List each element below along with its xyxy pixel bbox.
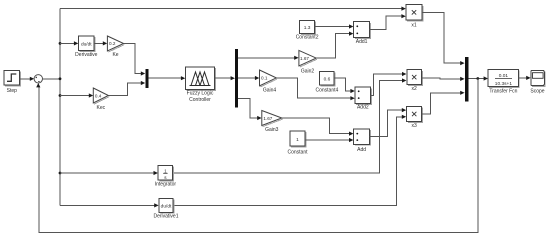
block Transfer Fcn	[488, 70, 519, 95]
constant Constant (1)	[287, 131, 308, 155]
wire Integrator to x2 input 2	[173, 78, 407, 173]
svg-text:0.4: 0.4	[95, 93, 102, 98]
wire Transfer Fcn to Scope	[518, 76, 530, 80]
wire feedback from junction to Sum	[36, 79, 478, 233]
svg-text:Derivative1: Derivative1	[153, 214, 178, 220]
wire Gain2 to Add1 input 2	[316, 32, 353, 59]
wire Add to x3 input 1	[370, 108, 407, 137]
sink block Scope	[530, 70, 545, 94]
svg-text:0.2: 0.2	[109, 41, 116, 46]
svg-text:Transfer Fcn: Transfer Fcn	[489, 89, 517, 95]
svg-text:Fuzzy Logic: Fuzzy Logic	[187, 91, 214, 97]
wire Mux to Fuzzy Logic Controller	[149, 76, 186, 80]
svg-text:Scope: Scope	[530, 89, 544, 95]
block U1 Fuzzy Logic Controller	[186, 67, 216, 103]
gain Ke (0.2)	[107, 36, 124, 58]
wire trunk to Kec	[60, 93, 93, 97]
wire Derivative1 to x3 input 2	[173, 115, 406, 206]
wire x2 to Mux1 input 2	[422, 77, 465, 81]
svg-text:Constant: Constant	[287, 149, 308, 155]
svg-text:0.1: 0.1	[261, 76, 268, 81]
svg-text:1.67: 1.67	[300, 56, 309, 61]
svg-text:Gain3: Gain3	[265, 127, 279, 133]
wire x1 to Mux1 input 1	[422, 12, 465, 65]
svg-text:1: 1	[164, 168, 167, 173]
block Derivative1 (du/dt)	[153, 198, 178, 219]
svg-text:Step: Step	[7, 88, 18, 94]
adder Add	[354, 129, 371, 153]
svg-text:1: 1	[296, 137, 299, 143]
wire main trunk vertical x=60	[59, 9, 61, 206]
svg-text:Ke: Ke	[112, 52, 118, 58]
wire Step to Sum	[20, 77, 35, 81]
wire Constant2 to Add1 input 1	[315, 24, 354, 28]
node junction trunk/Sum row	[59, 77, 62, 80]
wire Kec to Mux input 2	[108, 81, 145, 96]
wire Sum output to trunk node	[43, 78, 61, 80]
svg-text:0.6: 0.6	[324, 76, 331, 82]
block Integrator (1/s)	[155, 166, 177, 188]
svg-text:1.67: 1.67	[263, 116, 272, 121]
wire Constant to Add input 2	[305, 138, 353, 142]
wire trunk to Derivative	[60, 41, 78, 45]
wire Demux out2 to Gain4	[238, 76, 259, 80]
svg-text:Controller: Controller	[189, 97, 211, 103]
multiplier x2	[407, 70, 423, 92]
wire Ke to Mux input 1	[124, 43, 146, 75]
svg-text:du/dt: du/dt	[81, 41, 92, 47]
multiplier x3	[407, 106, 423, 128]
svg-text:Constant2: Constant2	[296, 35, 319, 41]
multiplier x1	[406, 5, 423, 29]
gain Kec (0.4)	[93, 88, 109, 111]
block Derivative (du/dt)	[75, 36, 97, 58]
demux Demux (1-to-3 bar)	[235, 49, 238, 107]
node junction feedback takeoff	[476, 77, 479, 80]
wire Mux1 to Transfer Fcn	[468, 76, 488, 80]
svg-text:Integrator: Integrator	[155, 181, 177, 187]
wire Gain4 to Add2 input 2	[276, 78, 355, 100]
node junction trunk/Integrator row	[59, 172, 62, 175]
adder Add2	[355, 87, 371, 110]
mux Mux (2-to-1 bar)	[145, 69, 148, 88]
gain Gain3 (1.67)	[262, 111, 283, 134]
wire Constant4 to Add2 input 1	[334, 78, 355, 93]
mux Mux1 (3-to-1 bar)	[465, 57, 469, 102]
gain Gain2 (1.67)	[299, 50, 317, 74]
wire trunk to Derivative1	[60, 203, 159, 207]
source block Step	[4, 71, 20, 95]
gain Gain4 (0.1)	[260, 70, 278, 93]
wire Demux out3 to Gain3	[238, 99, 261, 121]
constant Constant2 (1.3)	[296, 20, 319, 40]
svg-text:x3: x3	[411, 123, 417, 129]
svg-text:Add: Add	[357, 147, 366, 153]
wire trunk to Integrator	[60, 171, 158, 175]
svg-text:Gain2: Gain2	[301, 69, 315, 75]
svg-text:Gain4: Gain4	[263, 87, 277, 93]
svg-text:Kec: Kec	[96, 105, 105, 111]
wire Fuzzy Logic Controller to Demux	[215, 76, 236, 80]
svg-text:1.3: 1.3	[304, 25, 311, 31]
svg-text:Derivative: Derivative	[75, 52, 97, 58]
svg-text:Add1: Add1	[356, 39, 368, 45]
wire Demux out1 to Gain2	[238, 56, 298, 60]
wire top run to x1 input 1	[60, 7, 406, 11]
svg-text:10.3s+1: 10.3s+1	[495, 81, 513, 87]
wire Add2 to x2 input 1	[371, 72, 407, 95]
svg-text:x1: x1	[411, 23, 417, 29]
wire Add1 to x1 input 2	[370, 14, 406, 30]
svg-text:Add2: Add2	[357, 104, 369, 110]
wire Derivative to Ke	[94, 41, 107, 45]
sum block Sum	[34, 75, 42, 83]
adder Add1	[354, 22, 371, 45]
node junction trunk/Kec row	[59, 94, 62, 97]
svg-text:du/dt: du/dt	[161, 203, 172, 209]
svg-text:x2: x2	[411, 86, 417, 92]
svg-text:Constant4: Constant4	[316, 88, 339, 94]
wire x3 to Mux1 input 3	[422, 91, 465, 114]
wire Gain3 to Add input 1	[282, 118, 354, 136]
constant Constant4 (0.6)	[316, 71, 339, 93]
node junction trunk/Derivative row	[59, 42, 62, 45]
